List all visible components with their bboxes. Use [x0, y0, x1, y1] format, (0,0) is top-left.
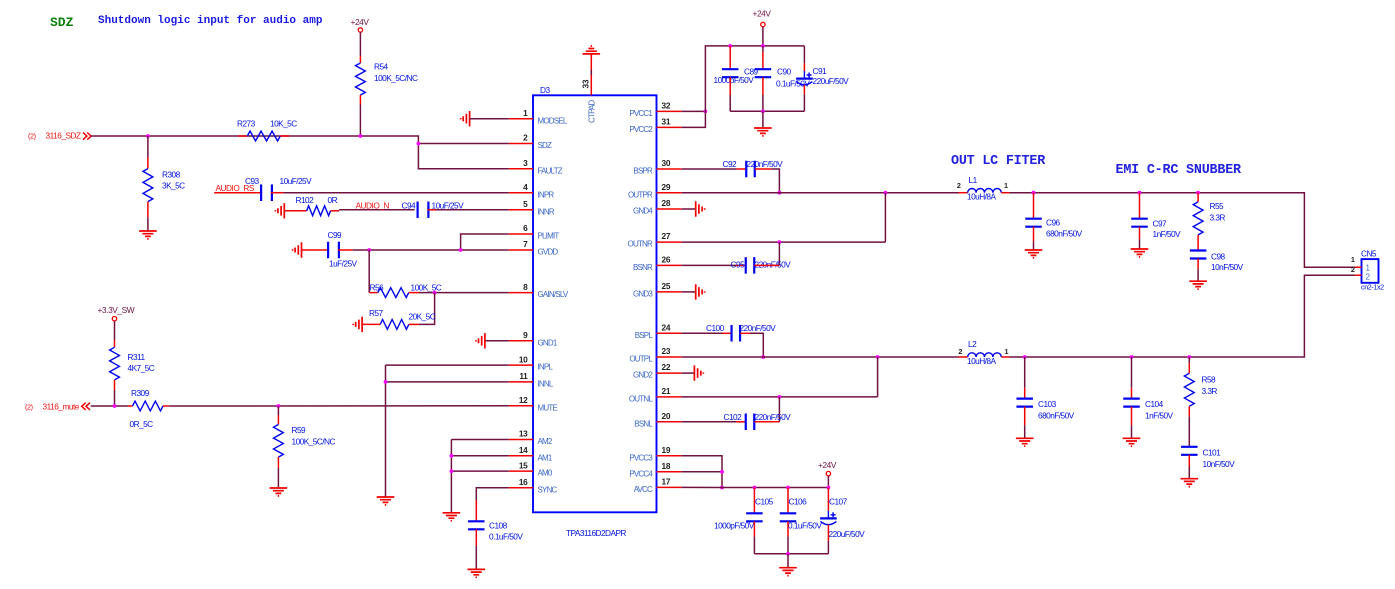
- resistor R55: [1193, 202, 1203, 235]
- wire bottom rail of C105-C107: [754, 553, 828, 555]
- capacitor C89 bottom lead: [729, 77, 731, 95]
- wire R308 bottom lead: [147, 202, 149, 218]
- svg-text:100K_5C: 100K_5C: [411, 283, 442, 293]
- connector CN5 body: [1362, 259, 1379, 283]
- svg-text:10K_5C: 10K_5C: [270, 119, 297, 129]
- wire AUDIO_RS to C93: [214, 192, 262, 194]
- svg-text:OUTNR: OUTNR: [628, 240, 653, 249]
- svg-text:C95: C95: [731, 260, 746, 270]
- node junction BSPL-OUTPL: [761, 355, 765, 359]
- ground below C101: [1181, 479, 1199, 487]
- svg-text:680nF/50V: 680nF/50V: [1038, 411, 1075, 421]
- svg-text:2: 2: [523, 133, 528, 143]
- svg-text:TPA3116D2DAPR: TPA3116D2DAPR: [566, 528, 626, 538]
- svg-text:Shutdown logic input for audio: Shutdown logic input for audio amp: [98, 15, 323, 27]
- svg-text:1uF/25V: 1uF/25V: [329, 259, 358, 269]
- svg-text:C106: C106: [789, 497, 808, 507]
- resistor R273 left lead: [238, 135, 247, 137]
- svg-text:18: 18: [662, 461, 671, 471]
- node junction R58 tap: [1187, 355, 1191, 359]
- ground above IC pin 33: [583, 46, 601, 54]
- wire net OUTPR pin 29 to L1: [682, 192, 959, 194]
- wire MODSEL to ground: [470, 118, 509, 120]
- wire +3.3V_SW to R311: [114, 321, 116, 340]
- IC D3 left pin names: [538, 116, 569, 494]
- svg-text:100K_5C/NC: 100K_5C/NC: [292, 437, 336, 447]
- svg-text:10uH/8A: 10uH/8A: [967, 356, 996, 366]
- svg-text:AM2: AM2: [538, 437, 553, 446]
- ground left of C99: [293, 242, 302, 257]
- capacitor C98 bottom lead: [1197, 259, 1199, 270]
- svg-text:19: 19: [662, 445, 671, 455]
- svg-text:+24V: +24V: [753, 9, 772, 19]
- resistor R57: [380, 320, 409, 330]
- svg-text:C100: C100: [706, 323, 725, 333]
- capacitor C96 bottom lead: [1033, 227, 1035, 242]
- svg-text:2: 2: [957, 181, 961, 190]
- svg-text:220nF/50V: 220nF/50V: [755, 412, 792, 422]
- wire R54 bottom to SDZ net: [359, 95, 361, 105]
- svg-text:GND1: GND1: [538, 338, 558, 347]
- svg-text:R273: R273: [237, 119, 256, 129]
- svg-text:C107: C107: [829, 497, 848, 507]
- wire R59 top lead: [277, 406, 279, 415]
- node junction PVCC1: [704, 110, 708, 114]
- svg-text:22: 22: [662, 362, 671, 372]
- ground left of R102: [275, 203, 284, 218]
- capacitor C96 top lead: [1033, 193, 1035, 219]
- wire C108 bottom lead: [475, 529, 477, 545]
- inductor L1: [968, 189, 1002, 193]
- node junction C103 tap: [1023, 355, 1027, 359]
- IC D3 right pin stubs: [657, 111, 682, 487]
- svg-text:AVCC: AVCC: [634, 485, 653, 494]
- svg-text:R59: R59: [292, 425, 307, 435]
- svg-text:220nF/50V: 220nF/50V: [755, 260, 792, 270]
- ground below INPL/INNL: [377, 497, 395, 505]
- svg-text:3.3R: 3.3R: [1210, 213, 1226, 223]
- svg-text:3116_SDZ: 3116_SDZ: [46, 131, 81, 141]
- svg-text:GND3: GND3: [633, 290, 653, 299]
- node junction C106 tap: [786, 486, 790, 490]
- svg-text:C99: C99: [328, 230, 343, 240]
- svg-text:C101: C101: [1203, 448, 1222, 458]
- svg-text:31: 31: [662, 117, 671, 127]
- svg-text:220uF/50V: 220uF/50V: [813, 76, 850, 86]
- polarized capacitor C91: [796, 77, 813, 79]
- svg-text:CTPAD: CTPAD: [588, 99, 597, 123]
- capacitor C100: [732, 325, 741, 342]
- wire net AM0 pin 15: [451, 470, 508, 472]
- svg-text:33: 33: [581, 79, 591, 88]
- capacitor C96: [1025, 219, 1042, 227]
- svg-text:29: 29: [662, 182, 671, 192]
- wire bottom bus of cap bank: [730, 110, 804, 112]
- svg-text:0.1uF/50V: 0.1uF/50V: [776, 79, 810, 89]
- resistor R309 left lead: [128, 405, 133, 407]
- op-amp U1 IC D3 TPA3116D2DAPR body: [533, 95, 657, 512]
- IC D3 left pin stubs: [509, 119, 533, 488]
- svg-text:C97: C97: [1153, 219, 1168, 229]
- capacitor C97: [1131, 219, 1148, 227]
- svg-text:220nF/50V: 220nF/50V: [747, 159, 784, 169]
- node junction top bus C89: [728, 44, 732, 48]
- wire +24V drop to AVCC line: [827, 476, 829, 488]
- svg-text:C94: C94: [402, 201, 417, 211]
- svg-text:4K7_5C: 4K7_5C: [128, 363, 155, 373]
- wire net INPL pin 10: [386, 364, 509, 366]
- svg-text:R56: R56: [370, 283, 385, 293]
- ground left of GND1: [476, 333, 485, 348]
- svg-text:3.3R: 3.3R: [1202, 386, 1218, 396]
- wire net INNL pin 11: [386, 381, 509, 383]
- svg-text:MODSEL: MODSEL: [538, 116, 568, 125]
- polarized capacitor C107: [820, 517, 837, 519]
- capacitor C93: [261, 184, 272, 201]
- resistor R309: [133, 401, 163, 411]
- wire C99 to GVDD net: [338, 249, 353, 251]
- svg-text:INPL: INPL: [538, 363, 554, 372]
- ground below C103: [1016, 438, 1034, 446]
- capacitor C90 top lead: [762, 46, 764, 52]
- svg-text:C92: C92: [723, 159, 738, 169]
- svg-text:+24V: +24V: [351, 17, 370, 27]
- svg-text:INNL: INNL: [538, 380, 554, 389]
- ground right of GND4 pin 28: [682, 208, 696, 210]
- resistor R56 left lead: [369, 292, 378, 294]
- ground below R59: [270, 488, 288, 496]
- wire R102 to C94: [331, 210, 340, 212]
- wire PVCC1 pin 32 to bus: [682, 110, 706, 112]
- svg-text:AM1: AM1: [538, 453, 553, 462]
- svg-text:220uF/50V: 220uF/50V: [829, 529, 866, 539]
- svg-text:C91: C91: [813, 66, 828, 76]
- inductor L1 left lead: [959, 192, 968, 194]
- svg-text:12: 12: [519, 395, 528, 405]
- capacitor C89 top lead: [729, 46, 731, 69]
- node junction R59 tap: [277, 404, 281, 408]
- capacitor C103 top lead: [1024, 357, 1026, 388]
- svg-text:(2): (2): [28, 132, 36, 141]
- ground below C104: [1123, 438, 1141, 446]
- svg-text:SDZ: SDZ: [50, 15, 74, 30]
- wire C95 to BSNR corner: [754, 264, 779, 266]
- svg-text:1: 1: [1351, 255, 1355, 264]
- ground below bottom rail: [779, 568, 797, 576]
- svg-text:25: 25: [662, 281, 671, 291]
- wire GND1 pin 9: [485, 340, 509, 342]
- node junction BSPR-OUTPR: [778, 191, 782, 195]
- svg-text:27: 27: [662, 231, 671, 241]
- svg-text:GND4: GND4: [633, 207, 653, 216]
- wire ground to C99: [302, 249, 330, 251]
- off-page connector port 3116_SDZ: [83, 133, 91, 140]
- svg-text:C108: C108: [489, 521, 508, 531]
- svg-text:R311: R311: [128, 352, 146, 362]
- capacitor C105 bottom lead: [753, 521, 755, 536]
- wire OUTNL tie vertical: [877, 357, 879, 397]
- svg-text:15: 15: [519, 460, 528, 470]
- svg-text:BSNL: BSNL: [634, 419, 653, 428]
- node junction OUTPR-OUTNR tie: [884, 191, 888, 195]
- svg-text:32: 32: [662, 101, 671, 111]
- wire R59 bottom lead: [277, 457, 279, 468]
- resistor R311: [110, 347, 120, 380]
- wire R311 bottom to mute net: [114, 380, 116, 390]
- svg-text:30: 30: [662, 158, 671, 168]
- svg-text:8: 8: [523, 282, 528, 292]
- CN5 pin 1 stub: [1355, 266, 1361, 268]
- resistor R273: [247, 131, 280, 141]
- svg-text:R309: R309: [131, 388, 150, 398]
- svg-text:23: 23: [662, 346, 671, 356]
- capacitor C95: [746, 257, 755, 274]
- svg-text:EMI C-RC SNUBBER: EMI C-RC SNUBBER: [1116, 163, 1243, 178]
- capacitor C103: [1016, 399, 1032, 407]
- svg-text:3: 3: [523, 158, 528, 168]
- wire R308 top lead: [147, 136, 149, 157]
- svg-text:C102: C102: [724, 412, 743, 422]
- svg-text:2: 2: [1351, 265, 1355, 274]
- resistor R59: [274, 425, 284, 458]
- node junction AM1: [450, 454, 454, 458]
- resistor R273 right lead: [280, 135, 289, 137]
- wire +24V to top bus: [762, 27, 764, 46]
- svg-text:10uF/25V: 10uF/25V: [280, 176, 313, 186]
- capacitor C106 top lead: [787, 488, 789, 514]
- wire BSNR pin 26 to C95: [682, 264, 736, 266]
- resistor R55 top lead: [1197, 193, 1199, 202]
- capacitor C91 top lead: [803, 46, 805, 63]
- svg-text:BSPL: BSPL: [635, 331, 654, 340]
- svg-text:5: 5: [523, 199, 528, 209]
- svg-text:AUDIO_N: AUDIO_N: [356, 201, 390, 211]
- wire PVCC3 pin 19 corner: [682, 456, 722, 488]
- svg-text:1nF/50V: 1nF/50V: [1145, 411, 1174, 421]
- ground below AM pins: [443, 513, 461, 521]
- capacitor C101: [1181, 447, 1198, 455]
- node junction BSNR-OUTNR: [778, 240, 782, 244]
- svg-text:26: 26: [662, 255, 671, 265]
- node junction AM0: [450, 469, 454, 473]
- svg-text:C105: C105: [755, 497, 774, 507]
- capacitor C107 bottom lead: [827, 525, 829, 542]
- node junction bottom rail ground: [786, 552, 790, 556]
- capacitor C106 bottom lead: [787, 521, 789, 536]
- svg-text:C98: C98: [1211, 252, 1226, 262]
- ground below C98: [1189, 281, 1207, 289]
- svg-text:10: 10: [519, 354, 528, 364]
- capacitor C98: [1190, 251, 1207, 259]
- node junction R308 tap: [146, 134, 150, 138]
- svg-text:3K_5C: 3K_5C: [162, 181, 185, 191]
- wire PVCC4 pin 18: [682, 471, 722, 473]
- node junction C107 tap: [827, 486, 831, 490]
- capacitor C101 bottom lead: [1188, 455, 1190, 467]
- svg-text:C104: C104: [1145, 399, 1164, 409]
- capacitor C99: [328, 242, 339, 259]
- svg-text:BSNR: BSNR: [633, 263, 653, 272]
- wire ground to R102: [284, 210, 306, 212]
- wire PLIMIT pin 6 branch: [461, 234, 509, 250]
- resistor R58 top lead: [1188, 357, 1190, 363]
- svg-text:0.1uF/50V: 0.1uF/50V: [788, 521, 822, 531]
- capacitor C91 bottom lead: [803, 85, 805, 95]
- svg-text:0R: 0R: [328, 195, 338, 205]
- wire net OUTNL pin 21: [682, 396, 878, 398]
- wire bus to ground: [762, 111, 764, 128]
- svg-text:1: 1: [1004, 181, 1008, 190]
- svg-text:GND2: GND2: [633, 371, 653, 380]
- svg-text:R102: R102: [296, 195, 315, 205]
- resistor R309 right lead: [163, 405, 169, 407]
- svg-text:1nF/50V: 1nF/50V: [1153, 229, 1182, 239]
- wire OUTR line to CN5 corner: [1009, 193, 1355, 268]
- node junction BSNL-OUTNL: [778, 395, 782, 399]
- ground below R308: [139, 231, 157, 239]
- svg-text:C103: C103: [1038, 399, 1057, 409]
- svg-text:PVCC3: PVCC3: [629, 453, 653, 462]
- capacitor C107 top lead: [827, 488, 829, 511]
- wire BSPR pin 30 to C92: [682, 168, 737, 170]
- inductor L2: [968, 353, 1002, 357]
- node junction R55 tap: [1196, 191, 1200, 195]
- node junction OUTPL-OUTNL tie: [876, 355, 880, 359]
- svg-text:R55: R55: [1210, 201, 1225, 211]
- wire C93 to IC pin 4 INPR: [271, 192, 284, 194]
- svg-text:R58: R58: [1202, 375, 1217, 385]
- svg-text:14: 14: [519, 445, 528, 455]
- capacitor C97 bottom lead: [1139, 227, 1141, 240]
- svg-text:D3: D3: [540, 85, 550, 95]
- svg-text:PLIMIT: PLIMIT: [538, 232, 560, 241]
- capacitor C105 top lead: [753, 488, 755, 514]
- wire BSNL tie vertical: [778, 397, 780, 422]
- resistor R308: [143, 169, 153, 202]
- node junction C105 tap: [753, 486, 757, 490]
- svg-text:GAIN/SLV: GAIN/SLV: [538, 290, 569, 299]
- power symbol +24V top: [761, 22, 765, 26]
- svg-text:R308: R308: [162, 170, 181, 180]
- svg-text:PVCC4: PVCC4: [629, 469, 653, 478]
- svg-text:6: 6: [523, 223, 528, 233]
- svg-text:20: 20: [662, 411, 671, 421]
- ground right of GND3 pin 25: [682, 291, 696, 293]
- svg-text:SYNC: SYNC: [538, 485, 558, 494]
- capacitor C92: [746, 161, 755, 178]
- capacitor C104 bottom lead: [1131, 407, 1133, 426]
- svg-text:CN5: CN5: [1361, 249, 1377, 259]
- IC D3 left pin numbers: [519, 108, 528, 487]
- ground below C96: [1025, 250, 1043, 258]
- off-page connector port 3116_mute: [82, 403, 90, 410]
- wire C102 to BSNL corner: [754, 421, 779, 423]
- svg-text:OUT LC FITER: OUT LC FITER: [951, 154, 1046, 169]
- svg-text:10uF/25V: 10uF/25V: [432, 201, 465, 211]
- svg-text:4: 4: [523, 182, 528, 192]
- svg-text:OUTPL: OUTPL: [629, 355, 653, 364]
- svg-text:1000pF/50V: 1000pF/50V: [714, 521, 755, 531]
- wire rail to ground: [787, 554, 789, 568]
- svg-text:20K_5C: 20K_5C: [409, 312, 436, 322]
- inductor L2 left lead: [959, 356, 968, 358]
- svg-text:SDZ: SDZ: [538, 141, 553, 150]
- svg-text:17: 17: [662, 477, 671, 487]
- node junction C97 tap: [1138, 191, 1142, 195]
- resistor R57 right lead: [409, 323, 419, 325]
- svg-text:9: 9: [523, 330, 528, 340]
- node junction bottom bus ground: [761, 109, 765, 113]
- wire GVDD down to R56: [368, 250, 370, 293]
- wire R309 to IC pin 12 MUTE: [169, 405, 509, 407]
- power symbol +24V for R54: [358, 28, 362, 32]
- wire PVCC2 pin 31 corner up: [682, 46, 805, 128]
- capacitor C94: [418, 202, 429, 219]
- node junction GVDD C99: [367, 248, 371, 252]
- wire C94 to IC pin 5 INNR: [427, 209, 436, 211]
- wire SYNC pin 16 to C108: [476, 488, 509, 500]
- wire net AM1 pin 14: [451, 455, 508, 457]
- svg-text:2: 2: [958, 347, 962, 356]
- svg-text:INPR: INPR: [538, 190, 555, 199]
- svg-text:21: 21: [662, 386, 671, 396]
- wire C100 to OUTPL: [740, 332, 750, 334]
- svg-text:13: 13: [519, 429, 528, 439]
- capacitor C104 top lead: [1131, 357, 1133, 388]
- node junction INNL: [384, 380, 388, 384]
- capacitor C106: [780, 513, 797, 521]
- svg-text:OUTPR: OUTPR: [628, 190, 653, 199]
- wire net 3116_mute to R309: [91, 405, 128, 407]
- wire net GVDD to IC pin 7: [369, 249, 509, 251]
- svg-text:BSPR: BSPR: [633, 167, 653, 176]
- svg-text:28: 28: [662, 198, 671, 208]
- wire BSNR tie vertical: [778, 242, 780, 265]
- ground below C108: [468, 569, 486, 577]
- svg-text:cn2-1x2: cn2-1x2: [1361, 283, 1384, 292]
- wire net 3116_SDZ main horizontal: [91, 136, 509, 169]
- svg-text:1000pF/50V: 1000pF/50V: [714, 75, 755, 85]
- svg-text:16: 16: [519, 477, 528, 487]
- wire BSPL pin 24 to C100: [682, 332, 722, 334]
- capacitor C103 bottom lead: [1024, 407, 1026, 426]
- wire INPL/INNL vertical to ground: [385, 365, 387, 497]
- svg-text:10nF/50V: 10nF/50V: [1211, 262, 1244, 272]
- svg-text:PVCC2: PVCC2: [629, 125, 653, 134]
- svg-text:C93: C93: [245, 176, 260, 186]
- node junction SDZ pin2: [417, 142, 421, 146]
- svg-text:1: 1: [523, 108, 528, 118]
- IC D3 right pin numbers: [662, 101, 671, 487]
- capacitor C108: [468, 521, 485, 529]
- ground left of MODSEL pin 1: [461, 111, 470, 126]
- capacitor C90 bottom lead: [762, 77, 764, 95]
- node junction top bus +24V: [761, 44, 765, 48]
- svg-text:11: 11: [519, 371, 528, 381]
- wire R57 branch vertical: [419, 293, 435, 325]
- wire BSNL pin 20 to C102: [682, 421, 736, 423]
- wire R55 to C98: [1197, 235, 1199, 251]
- svg-text:C96: C96: [1046, 218, 1061, 228]
- svg-text:AM0: AM0: [538, 469, 553, 478]
- wire AM vertical to ground: [450, 440, 452, 513]
- svg-text:24: 24: [662, 322, 671, 332]
- svg-text:INNR: INNR: [538, 207, 555, 216]
- wire C92 to OUTPR: [755, 168, 772, 170]
- wire OUTL line to CN5 corner: [1009, 275, 1355, 357]
- CN5 pin 2 stub: [1355, 274, 1361, 276]
- ground below C97: [1131, 249, 1149, 257]
